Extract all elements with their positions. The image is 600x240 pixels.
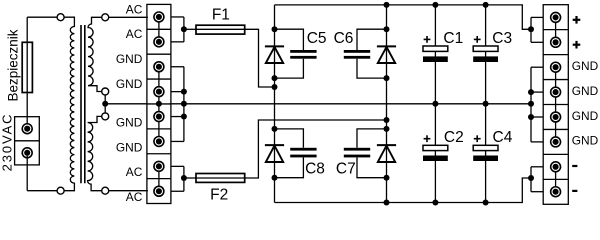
- svg-text:GND: GND: [572, 134, 599, 148]
- terminal strip left (transformer secondary connections): [147, 4, 171, 203]
- terminal 230VAC pin 1: [22, 124, 32, 134]
- svg-text:F1: F1: [212, 6, 230, 23]
- capacitor C1: [423, 46, 448, 51]
- diode D4 (lower right): [377, 144, 396, 146]
- svg-text:AC: AC: [126, 27, 143, 41]
- terminal right strip pin 8: [551, 187, 561, 197]
- fuse Bezpiecznik: [22, 42, 32, 92]
- svg-text:GND: GND: [116, 77, 143, 91]
- wire: F2 to bridge AC2 node: [245, 120, 387, 178]
- secondary winding upper: [88, 17, 102, 91]
- wire: secondary top to strip AC: [109, 16, 148, 18]
- wire: GND rail to right strip pins 3-6: [530, 67, 532, 142]
- terminal right strip pin 7: [551, 162, 561, 172]
- junction: AC1 node: [272, 84, 278, 90]
- secondary upper top terminal: [102, 14, 109, 21]
- label - pin 8: [572, 190, 577, 192]
- terminal right strip pin 3: [551, 62, 561, 72]
- primary bottom terminal: [57, 187, 64, 194]
- wire: negative bottom rail: [275, 178, 532, 203]
- wire: F1 to bridge AC1 node: [245, 29, 275, 87]
- terminal left strip pin 7: [154, 161, 164, 171]
- wire: C3 column: [485, 5, 487, 104]
- label + pin 2: [573, 44, 581, 46]
- wire: - feed to right strip pins 7+8: [528, 175, 534, 181]
- wire: C5 bottom: [275, 59, 304, 78]
- terminal 230VAC pin 2: [22, 148, 32, 158]
- primary top terminal: [57, 14, 64, 21]
- secondary winding lower: [88, 116, 102, 190]
- junction: F2 input: [181, 175, 187, 181]
- wire: C4 column: [485, 104, 487, 203]
- internal links right strip: [555, 17, 557, 42]
- terminal left strip pin 5: [154, 112, 164, 122]
- terminal left strip pin 4: [154, 87, 164, 97]
- terminal block 230VAC: [15, 117, 40, 165]
- svg-text:C7: C7: [336, 160, 356, 177]
- junction: right column to top rail: [384, 2, 390, 8]
- capacitor C7: [344, 148, 370, 151]
- fuse F1: [196, 28, 245, 30]
- capacitor C6: [344, 50, 370, 53]
- terminal left strip pin 2: [154, 37, 164, 47]
- wire: C8 bottom: [275, 157, 304, 177]
- svg-text:AC: AC: [126, 190, 143, 204]
- svg-text:GND: GND: [572, 84, 599, 98]
- junction: left strip GND link: [171, 66, 184, 68]
- capacitor C8: [290, 148, 316, 151]
- wire: C8 top: [275, 129, 304, 148]
- svg-text:C5: C5: [307, 30, 327, 47]
- wire: mains live from fuse up and over to transformer primary top: [26, 17, 28, 125]
- svg-text:C3: C3: [492, 30, 512, 47]
- diode D2 (upper right): [377, 45, 396, 47]
- terminal strip right (DC output): [543, 5, 568, 205]
- wire: left rectifier column: [274, 5, 276, 203]
- svg-text:AC: AC: [126, 2, 143, 16]
- junction: center tap to GND rail: [102, 101, 108, 107]
- transformer core: [80, 25, 82, 183]
- wire: GND rail strip to strip: [170, 103, 531, 105]
- wire: mains neutral from 230VAC pin2 down and right to primary bottom: [26, 156, 28, 191]
- junction: C5 bottom: [272, 75, 278, 81]
- svg-text:C1: C1: [443, 30, 463, 47]
- polarity + of C3: [474, 38, 481, 40]
- secondary upper bottom terminal: [102, 88, 109, 95]
- svg-text:C4: C4: [493, 129, 513, 146]
- capacitor C2: [423, 145, 448, 150]
- polarity + of C1: [424, 38, 431, 40]
- junction: C8 bottom: [272, 175, 278, 181]
- wire: positive top rail: [275, 5, 532, 29]
- label + pin 1: [573, 19, 581, 21]
- junction: GND rail inside left strip: [156, 101, 162, 107]
- capacitor C3: [473, 46, 498, 51]
- svg-text:GND: GND: [116, 140, 143, 154]
- wire: center tap: [104, 95, 106, 113]
- wire: C6 bottom: [357, 59, 387, 78]
- junction: right column to bottom rail: [384, 200, 390, 206]
- wire: C6 top: [357, 29, 387, 50]
- polarity + of C2: [424, 138, 431, 140]
- terminal left strip pin 3: [154, 62, 164, 72]
- wire: right rectifier column: [386, 5, 388, 203]
- capacitor C4: [473, 145, 498, 150]
- junction: C7 bottom: [384, 175, 390, 181]
- svg-text:GND: GND: [116, 115, 143, 129]
- label - pin 7: [572, 165, 577, 167]
- svg-text:GND: GND: [572, 59, 599, 73]
- junction: C5 top: [272, 26, 278, 32]
- terminal right strip pin 6: [551, 137, 561, 147]
- junction: C7 top: [384, 126, 390, 132]
- terminal right strip pin 1: [551, 12, 561, 22]
- wire: C1 column: [434, 5, 436, 104]
- terminal right strip pin 2: [551, 37, 561, 47]
- wire: strip AC pins 1+2 to fuse F1: [171, 16, 184, 18]
- diode D3 (lower left): [265, 144, 284, 146]
- junction: C6 bottom: [384, 75, 390, 81]
- svg-text:GND: GND: [572, 109, 599, 123]
- terminal left strip pin 1: [154, 12, 164, 22]
- primary winding: [64, 17, 74, 191]
- svg-text:Bezpiecznik: Bezpiecznik: [6, 29, 21, 101]
- wire: C5 top: [275, 29, 304, 50]
- svg-text:C8: C8: [305, 160, 325, 177]
- terminal left strip pin 8: [154, 186, 164, 196]
- fuse F2: [196, 177, 245, 179]
- terminal left strip pin 6: [154, 137, 164, 147]
- svg-text:C6: C6: [334, 30, 354, 47]
- junction: AC2 node: [384, 117, 390, 123]
- junction: C8 top: [272, 126, 278, 132]
- wire: C2 column: [434, 104, 436, 203]
- wire: secondary bottom to strip AC: [109, 190, 148, 192]
- wire: C7 top: [357, 129, 387, 148]
- svg-text:GND: GND: [116, 52, 143, 66]
- terminal right strip pin 5: [551, 112, 561, 122]
- wire: + feed to right strip pins 1+2: [528, 26, 534, 32]
- junction: C6 top: [384, 26, 390, 32]
- svg-text:F2: F2: [210, 187, 228, 204]
- junction: F1 input: [181, 26, 187, 32]
- polarity + of C4: [474, 138, 481, 140]
- internal links left strip: [158, 17, 160, 42]
- capacitor C5: [290, 50, 316, 53]
- wire: strip AC pins 7+8 to fuse F2: [171, 165, 184, 167]
- svg-text:AC: AC: [126, 165, 143, 179]
- terminal right strip pin 4: [551, 87, 561, 97]
- svg-text:C2: C2: [444, 129, 464, 146]
- diode D1 (upper left): [265, 45, 284, 47]
- secondary lower top terminal: [102, 113, 109, 120]
- secondary lower bottom terminal: [102, 187, 109, 194]
- wire: C7 bottom: [357, 157, 387, 177]
- svg-text:230VAC: 230VAC: [0, 113, 15, 172]
